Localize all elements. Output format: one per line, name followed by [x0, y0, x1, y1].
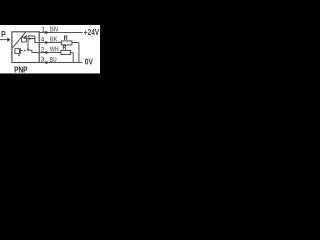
resistor R2	[61, 50, 71, 54]
svg-text:PNP: PNP	[14, 65, 28, 75]
svg-text:0V: 0V	[85, 57, 94, 66]
sensor diagonal	[12, 32, 26, 49]
white schematic background strip	[0, 25, 100, 73]
svg-text:+24V: +24V	[84, 27, 100, 37]
wire R1 to +24V rail drop	[72, 43, 79, 63]
wire pin2 WH	[39, 52, 61, 54]
sensor box U1	[12, 32, 39, 63]
svg-text:P: P	[1, 29, 5, 39]
svg-text:WH: WH	[50, 46, 59, 53]
dashed mechanical link	[21, 50, 26, 52]
mechanical link down-arrow	[27, 49, 29, 51]
S1 actuation arrowhead	[23, 37, 26, 39]
S1 output arrowhead	[29, 37, 32, 40]
pin2 arrowhead	[46, 51, 49, 55]
switch S2 (lower output element)	[15, 48, 20, 56]
wire pin1 BN	[39, 32, 82, 34]
wire pin3 BU	[39, 62, 82, 64]
svg-text:BK: BK	[50, 36, 58, 43]
S2 down arrowhead	[18, 55, 20, 57]
wire S1 to pin 4	[34, 36, 36, 43]
wire pin4 BK	[39, 42, 61, 44]
svg-text:BU: BU	[50, 57, 57, 64]
pin3 arrowhead	[46, 61, 49, 65]
pin4 arrowhead	[46, 41, 49, 45]
wire S2 to pin 2	[27, 50, 40, 52]
switch S1 (upper output element)	[22, 35, 35, 49]
wire R2 drop to 0V	[71, 53, 74, 63]
wire P input arrow	[0, 39, 8, 41]
svg-text:BN: BN	[50, 26, 58, 33]
resistor R1	[61, 41, 72, 45]
pin1 arrowhead	[46, 31, 49, 35]
